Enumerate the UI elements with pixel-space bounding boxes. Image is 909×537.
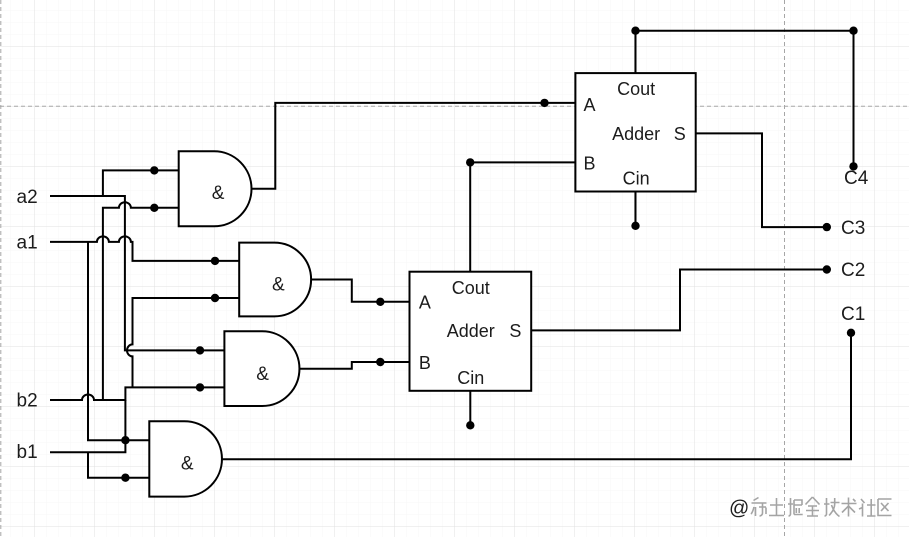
junction dot gate4 upper <box>121 436 129 444</box>
wire a1 branch down to gate4 upper input <box>88 242 149 440</box>
svg-text:B: B <box>419 353 431 373</box>
junction dot adder U1 B wire <box>466 158 474 166</box>
svg-text:C2: C2 <box>841 260 865 281</box>
wire adder U2 Cin stub <box>469 391 471 426</box>
svg-text:&: & <box>272 274 285 295</box>
wire gate3 output to adder U2 input B <box>300 362 410 369</box>
page guide dashed vertical <box>784 0 786 537</box>
junction dot C3 terminal <box>823 223 831 231</box>
watermark @稀土掘金技术社区 (drawn strokes) <box>729 497 892 520</box>
svg-text:a2: a2 <box>17 187 38 208</box>
AND gate G2 (a1 AND b2) <box>239 243 311 317</box>
junction dot adder U2 A wire <box>376 298 384 306</box>
wire adder U1 Cin stub <box>635 192 637 226</box>
AND gate G3 (a2 AND b1) <box>224 331 299 406</box>
junction dot gate1 upper <box>150 166 158 174</box>
adder U1 (top) <box>575 73 695 191</box>
junction dot gate3 lower <box>196 383 204 391</box>
svg-text:&: & <box>181 454 194 475</box>
junction dot gate2 upper <box>211 257 219 265</box>
svg-text:Adder: Adder <box>612 124 660 144</box>
svg-text:Cin: Cin <box>457 368 484 388</box>
adder U2 (bottom) <box>410 272 532 391</box>
wire gate2 lower input riser to b2 (hop over gate3 upper wire) <box>127 298 239 387</box>
wire a2 to gate3 upper input (net a2) <box>50 196 224 350</box>
junction dot C2 terminal <box>823 265 831 273</box>
page guide dashed horizontal <box>0 105 909 107</box>
svg-text:S: S <box>674 124 686 144</box>
wire a1 to gate2 upper input (hops over two verticals) <box>50 236 239 260</box>
svg-text:C1: C1 <box>841 304 865 325</box>
svg-text:&: & <box>212 183 225 204</box>
svg-text:&: & <box>256 364 269 385</box>
svg-text:B: B <box>583 153 595 173</box>
wire b1 riser <box>50 400 125 452</box>
junction dot gate3 upper <box>196 346 204 354</box>
svg-text:Cout: Cout <box>617 79 655 99</box>
junction dot C1 terminal <box>847 329 855 337</box>
svg-text:Adder: Adder <box>447 321 495 341</box>
wire adder U2 Cout to adder U1 input B <box>470 162 575 271</box>
svg-text:C4: C4 <box>844 168 869 189</box>
wire adder U2 S to C2 <box>531 270 827 331</box>
wire b2 to gate3 lower input (hop over a1 vertical) <box>50 387 224 400</box>
junction dot C4 terminal <box>849 162 857 170</box>
svg-text:S: S <box>509 321 521 341</box>
junction dot adder U2 Cin end <box>466 421 474 429</box>
svg-text:A: A <box>419 292 431 312</box>
svg-text:A: A <box>583 95 595 115</box>
svg-text:C3: C3 <box>841 218 865 239</box>
junction dot gate4 lower <box>121 474 129 482</box>
svg-text:Cout: Cout <box>452 278 490 298</box>
svg-text:@: @ <box>729 498 749 520</box>
wire adder U1 S to C3 <box>696 133 827 227</box>
wire b2 riser to gate1 lower input (hop over a2 vertical) <box>103 202 179 400</box>
junction dot adder U2 B wire <box>376 358 384 366</box>
wire b1 branch to gate4 lower input <box>88 452 149 477</box>
wire adder U1 Cout to C4 <box>636 31 854 167</box>
junction dot gate2 lower <box>211 294 219 302</box>
junction dot adder U1 Cout corner <box>631 27 639 35</box>
svg-text:Cin: Cin <box>623 169 650 189</box>
svg-text:b1: b1 <box>17 442 38 463</box>
junction dot gate1 lower <box>150 204 158 212</box>
AND gate G1 (a2 AND b2) <box>179 151 252 226</box>
junction dot adder U1 A wire <box>540 99 548 107</box>
wire gate4 output to C1 <box>222 333 851 460</box>
junction dot top-right corner <box>849 27 857 35</box>
wire gate2 output to adder U2 input A <box>311 280 409 302</box>
svg-text:a1: a1 <box>17 233 38 254</box>
svg-text:b2: b2 <box>17 390 38 411</box>
AND gate G4 (a1 AND b1) <box>149 421 222 496</box>
wire gate1 output to adder U1 input A <box>252 103 576 189</box>
wire a2 branch up to gate1 upper input <box>103 170 179 196</box>
junction dot adder U1 Cin end <box>631 222 639 230</box>
page guide dashed vertical left edge <box>0 0 2 537</box>
